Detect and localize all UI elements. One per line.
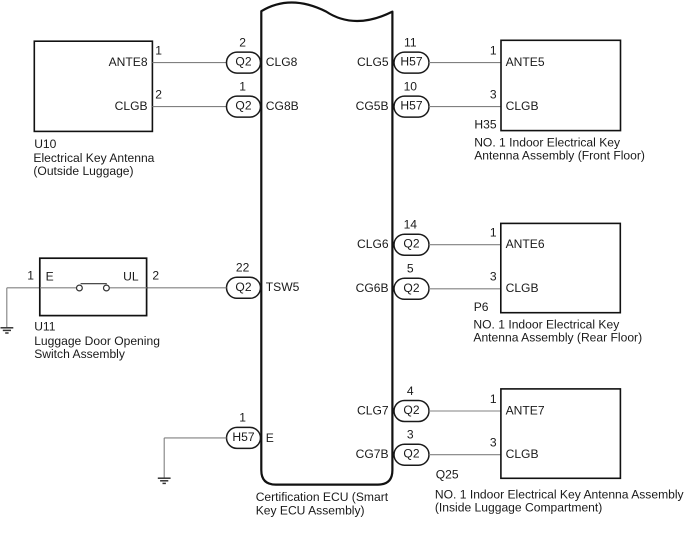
svg-text:ANTE8: ANTE8 <box>109 55 148 69</box>
wire connector E to ground drop <box>164 437 226 439</box>
switch lever bar (open contact) <box>81 283 107 285</box>
svg-text:3: 3 <box>407 428 414 442</box>
svg-text:Q2: Q2 <box>235 280 251 294</box>
svg-text:NO. 1 Indoor Electrical Key: NO. 1 Indoor Electrical Key <box>473 317 620 331</box>
svg-text:UL: UL <box>123 269 139 283</box>
svg-text:2: 2 <box>155 87 162 101</box>
svg-text:H57: H57 <box>400 55 422 69</box>
svg-text:CG8B: CG8B <box>266 99 299 113</box>
svg-text:Electrical Key Antenna: Electrical Key Antenna <box>33 151 154 165</box>
wire CLG6 to P6 ANTE6 <box>429 244 501 246</box>
svg-text:Switch Assembly: Switch Assembly <box>34 347 126 361</box>
connector Q2 at ECU terminal CLG6 <box>394 234 429 255</box>
connector Q2 at ECU terminal CG8B <box>227 96 261 117</box>
connector H57 at ECU terminal CG5B <box>394 96 429 117</box>
ground symbol at U11 pin 1 <box>6 288 8 327</box>
svg-text:Q2: Q2 <box>403 447 419 461</box>
svg-text:U10: U10 <box>34 137 56 151</box>
svg-text:ANTE5: ANTE5 <box>506 55 545 69</box>
svg-text:NO. 1 Indoor Electrical Key An: NO. 1 Indoor Electrical Key Antenna Asse… <box>435 488 685 502</box>
wire CLG5 to H35 ANTE5 <box>429 62 501 64</box>
svg-text:CLG8: CLG8 <box>266 55 298 69</box>
svg-text:CLGB: CLGB <box>506 281 539 295</box>
connector H57 at ECU terminal CLG5 <box>394 52 429 73</box>
svg-text:ANTE6: ANTE6 <box>506 237 545 251</box>
wire CG7B to Q25 CLGB <box>429 454 501 456</box>
svg-text:(Outside Luggage): (Outside Luggage) <box>33 164 133 178</box>
svg-text:1: 1 <box>490 392 497 406</box>
svg-text:CLG6: CLG6 <box>357 237 389 251</box>
svg-text:P6: P6 <box>474 300 489 314</box>
svg-text:CG6B: CG6B <box>356 281 389 295</box>
svg-text:Luggage Door Opening: Luggage Door Opening <box>34 334 160 348</box>
svg-text:1: 1 <box>490 226 497 240</box>
connector Q2 at ECU terminal CG6B <box>394 278 429 299</box>
svg-text:Q2: Q2 <box>235 55 251 69</box>
wire CLG7 to Q25 ANTE7 <box>429 410 501 412</box>
connector Q2 at ECU terminal CG7B <box>394 444 429 465</box>
svg-text:NO. 1 Indoor Electrical Key: NO. 1 Indoor Electrical Key <box>474 135 621 149</box>
antenna box U10 (Electrical Key Antenna, Outside Luggage) <box>34 41 152 131</box>
wire U10 CLGB to connector CG8B <box>152 106 226 108</box>
connector Q2 at ECU terminal CLG7 <box>394 401 429 422</box>
svg-text:Antenna Assembly (Front Floor): Antenna Assembly (Front Floor) <box>474 148 645 162</box>
wire contact to U11 pin 2 <box>109 287 147 289</box>
svg-text:Q25: Q25 <box>436 468 459 482</box>
svg-text:Certification ECU (Smart: Certification ECU (Smart <box>256 490 389 504</box>
svg-text:2: 2 <box>239 35 246 49</box>
svg-text:TSW5: TSW5 <box>266 280 300 294</box>
svg-text:5: 5 <box>407 262 414 276</box>
switch contact circle right <box>104 285 110 291</box>
svg-text:CG7B: CG7B <box>356 447 389 461</box>
ECU U-shape body: Certification ECU (Smart Key ECU Assembly) <box>261 2 392 484</box>
svg-text:1: 1 <box>490 43 497 57</box>
svg-text:CLGB: CLGB <box>115 99 148 113</box>
svg-text:22: 22 <box>236 261 250 275</box>
svg-text:Q2: Q2 <box>403 281 419 295</box>
svg-text:E: E <box>266 431 274 445</box>
svg-text:CLGB: CLGB <box>506 99 539 113</box>
wire CG6B to P6 CLGB <box>429 288 501 290</box>
svg-text:(Inside Luggage Compartment): (Inside Luggage Compartment) <box>435 501 602 515</box>
svg-text:U11: U11 <box>34 319 56 333</box>
svg-text:CLG5: CLG5 <box>357 55 389 69</box>
svg-text:CLGB: CLGB <box>506 447 539 461</box>
svg-text:H35: H35 <box>474 118 496 132</box>
svg-text:E: E <box>46 269 54 283</box>
svg-text:Q2: Q2 <box>235 99 251 113</box>
svg-text:11: 11 <box>404 35 417 49</box>
antenna box H35 (NO. 1 Indoor Electrical Key Antenna Assembly, Front Floor) <box>501 40 621 130</box>
antenna box P6 (NO. 1 Indoor Electrical Key Antenna Assembly, Rear Floor) <box>501 223 621 312</box>
svg-text:Antenna Assembly (Rear Floor): Antenna Assembly (Rear Floor) <box>473 330 642 344</box>
svg-text:2: 2 <box>152 269 159 283</box>
svg-text:Q2: Q2 <box>403 403 419 417</box>
svg-text:4: 4 <box>407 384 414 398</box>
wire U11 pin 2 to connector TSW5 <box>147 287 227 289</box>
wire inside U11 to contact <box>40 287 77 289</box>
svg-text:3: 3 <box>490 270 497 284</box>
ground symbol below terminal E wire <box>163 438 165 478</box>
switch contact circle left <box>77 285 83 291</box>
svg-text:H57: H57 <box>400 99 422 113</box>
svg-text:3: 3 <box>490 87 497 101</box>
svg-text:H57: H57 <box>232 430 254 444</box>
svg-text:1: 1 <box>239 411 246 425</box>
svg-text:1: 1 <box>27 269 34 283</box>
svg-text:1: 1 <box>239 79 246 93</box>
svg-text:Key ECU Assembly): Key ECU Assembly) <box>256 503 365 517</box>
wire ground to U11 pin 1 <box>7 287 40 289</box>
svg-text:1: 1 <box>155 43 162 57</box>
svg-text:ANTE7: ANTE7 <box>506 403 545 417</box>
svg-text:CLG7: CLG7 <box>357 403 389 417</box>
connector H57 at ECU terminal E <box>227 427 261 448</box>
antenna box Q25 (NO. 1 Indoor Electrical Key Antenna Assembly, Inside Luggage Compartment) <box>501 389 621 478</box>
wire U10 ANTE8 to connector CLG8 <box>152 62 226 64</box>
wire CG5B to H35 CLGB <box>429 106 501 108</box>
svg-text:Q2: Q2 <box>403 237 419 251</box>
svg-text:10: 10 <box>404 79 418 93</box>
connector Q2 at ECU terminal CLG8 <box>227 52 261 73</box>
svg-text:CG5B: CG5B <box>356 99 389 113</box>
switch box U11 (Luggage Door Opening Switch Assembly) <box>40 258 147 315</box>
svg-text:3: 3 <box>490 436 497 450</box>
svg-text:14: 14 <box>404 218 418 232</box>
connector Q2 at ECU terminal TSW5 <box>227 277 261 298</box>
